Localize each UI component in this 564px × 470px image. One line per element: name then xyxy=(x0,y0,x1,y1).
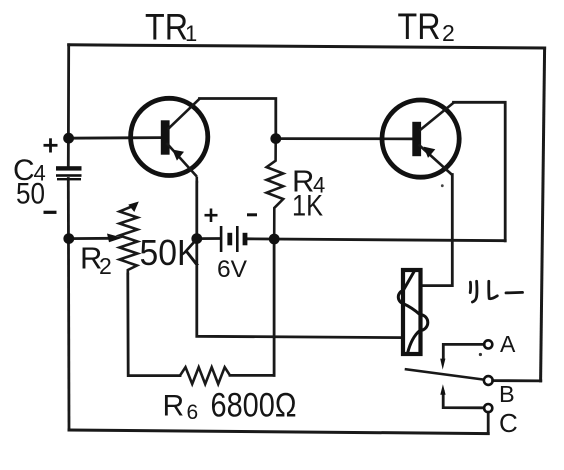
svg-text:B: B xyxy=(499,381,515,407)
junction TR1 base / C4 plus node xyxy=(63,133,74,144)
svg-text:2: 2 xyxy=(442,20,455,46)
svg-text:TR: TR xyxy=(145,7,188,48)
svg-text:6800Ω: 6800Ω xyxy=(211,387,297,425)
transistor TR2 xyxy=(382,100,459,177)
svg-text:C: C xyxy=(499,408,518,438)
wire R6 right lead xyxy=(230,374,274,377)
speck near TR2 xyxy=(441,184,444,187)
arrowhead contact A xyxy=(440,359,445,370)
label relay katakana xyxy=(470,281,522,302)
wire TR2 collector right leg xyxy=(454,102,506,241)
wire bottom to contact C xyxy=(487,412,490,433)
junction R2 wiper node xyxy=(63,233,74,244)
plus sign C4 xyxy=(44,138,58,152)
wire relay coil right terminal to TR2 emitter xyxy=(421,175,453,286)
arrowhead contact C xyxy=(440,384,445,395)
resistor R4 xyxy=(267,139,284,239)
resistor R2 (potentiometer) xyxy=(120,205,138,275)
wire R2 bottom to R6 xyxy=(128,274,180,376)
junction R4 top / TR2 base node xyxy=(270,133,281,144)
wire R4 bottom node down to R6 xyxy=(273,239,276,375)
junction battery plus / TR1 emitter node xyxy=(191,233,202,244)
minus sign battery xyxy=(247,213,257,216)
wire battery left xyxy=(197,237,220,240)
svg-text:2: 2 xyxy=(99,253,112,279)
wire left rail lower xyxy=(67,179,70,431)
arrowhead R2 top xyxy=(128,202,139,213)
svg-text:1K: 1K xyxy=(292,190,323,223)
svg-text:6V: 6V xyxy=(217,256,247,283)
svg-text:1: 1 xyxy=(185,21,197,46)
contact C terminal xyxy=(484,404,492,412)
wire TR1 base xyxy=(69,136,162,139)
wire bottom rail xyxy=(69,430,488,434)
svg-text:50: 50 xyxy=(16,177,45,210)
svg-text:TR: TR xyxy=(398,6,441,47)
wire R2 wiper xyxy=(69,237,110,240)
wire left rail upper xyxy=(67,45,70,166)
battery 6V xyxy=(220,226,248,252)
plus sign battery xyxy=(205,209,218,223)
speck below A wire xyxy=(479,353,482,356)
transistor TR1 xyxy=(131,98,208,183)
wire battery right to TR2 collector xyxy=(246,239,505,241)
svg-text:R: R xyxy=(163,389,185,422)
contact A terminal xyxy=(484,340,492,348)
contact B terminal xyxy=(484,376,493,385)
junction battery minus / R4 bottom node xyxy=(269,234,280,245)
wire contact B lead xyxy=(493,379,541,382)
wire TR2 base xyxy=(276,137,413,140)
capacitor C4 xyxy=(56,166,82,180)
arrowhead R2 wiper xyxy=(107,234,123,243)
minus sign C4 xyxy=(44,211,57,214)
relay coil xyxy=(398,270,428,354)
wire TR1 emitter down and to relay xyxy=(197,182,403,338)
wire TR1 collector to node xyxy=(200,99,276,140)
wire contact A lead xyxy=(443,344,484,358)
svg-text:A: A xyxy=(500,331,516,357)
svg-text:50K: 50K xyxy=(140,232,200,273)
resistor R6 xyxy=(180,367,230,384)
svg-text:6: 6 xyxy=(187,401,199,424)
wire top rail xyxy=(69,45,545,48)
wire contact C link xyxy=(443,392,484,408)
wire right border xyxy=(541,48,545,381)
wire switch blade xyxy=(406,369,484,379)
